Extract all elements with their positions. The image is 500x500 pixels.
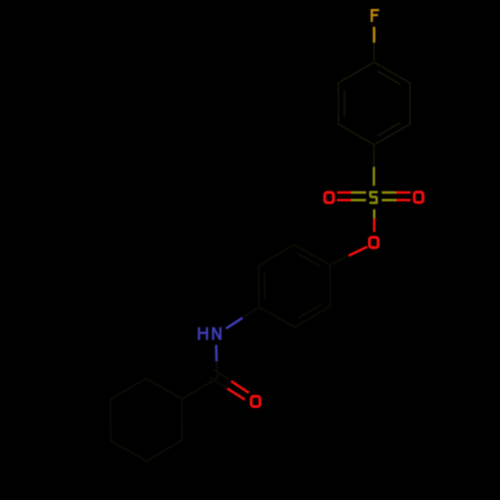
bond C9=O4 lower line (carbon half) (210, 377, 228, 388)
top ring aromatic inner line 3 (343, 90, 345, 116)
bond O3-C5 (carbon half) (330, 256, 349, 265)
bond S1-O3 (sulfur half) (373, 209, 375, 218)
bond C4-S1 (sulfur half) (373, 167, 375, 186)
middle ring aromatic inner line 3 (298, 305, 321, 318)
bond C4-S1 (carbon half) (373, 145, 375, 167)
bond O3-C5 (oxygen half) (349, 247, 368, 256)
middle ring aromatic inner line 1 (298, 254, 321, 267)
bond C9=O4 upper line (carbon half) (214, 370, 232, 382)
bond C9=O4 lower line (oxygen half) (227, 388, 245, 399)
bond C1-F1 (fluorine half) (373, 27, 376, 43)
bond N1-C9 (nitrogen half, to carbonyl) (215, 345, 218, 362)
bond N1-C9 (carbon half) (216, 361, 219, 378)
atom O4 (carbonyl oxygen label) (251, 396, 260, 406)
atom N1 hydrogen (H of HN label) (199, 327, 207, 340)
atom F1 (fluorine label) (371, 9, 380, 22)
bond N1-C8 (nitrogen half, to ring) (226, 318, 243, 329)
bond S1=O1 upper line (sulfur half) (352, 191, 367, 194)
atom O2 (right sulfonyl oxygen label) (414, 192, 423, 202)
top ring aromatic inner line 1 (378, 71, 401, 84)
bond C1-F1 (carbon half) (373, 43, 375, 63)
middle benzene ring C5-C6-C7-C8 edges (259, 245, 331, 327)
bond S1=O1 lower line (oxygen half) (337, 199, 352, 202)
bond S1-O3 (oxygen half) (373, 218, 375, 232)
atom N1 (N of HN label) (213, 327, 220, 340)
middle ring aromatic inner line 2 (264, 273, 266, 300)
atom S1 (sulfur label) (369, 192, 377, 203)
top benzene ring C1-C2-C3-C4 edges (338, 62, 410, 145)
bond C9=O4 upper line (oxygen half) (231, 381, 249, 393)
atom O3 (ester oxygen label) (369, 237, 378, 247)
bond S1=O1 lower line (sulfur half) (352, 199, 367, 202)
bond S1=O1 upper line (oxygen half) (337, 191, 352, 194)
bond S1=O2 lower line (oxygen half) (396, 199, 411, 202)
atom O1 (left sulfonyl oxygen label) (325, 192, 334, 202)
cyclohexyl ring C10-C15 edges (110, 379, 182, 462)
carbon skeleton (near-invisible dark bonds) (338, 43, 410, 167)
top ring aromatic inner line 2 (378, 123, 401, 136)
bond S1=O2 upper line (oxygen half) (396, 191, 411, 194)
bond C9-C10 (182, 378, 218, 399)
bond S1=O2 lower line (sulfur half) (382, 199, 396, 202)
bond S1=O2 upper line (sulfur half) (382, 191, 396, 194)
bond C8-N1 (carbon half) (243, 307, 260, 318)
